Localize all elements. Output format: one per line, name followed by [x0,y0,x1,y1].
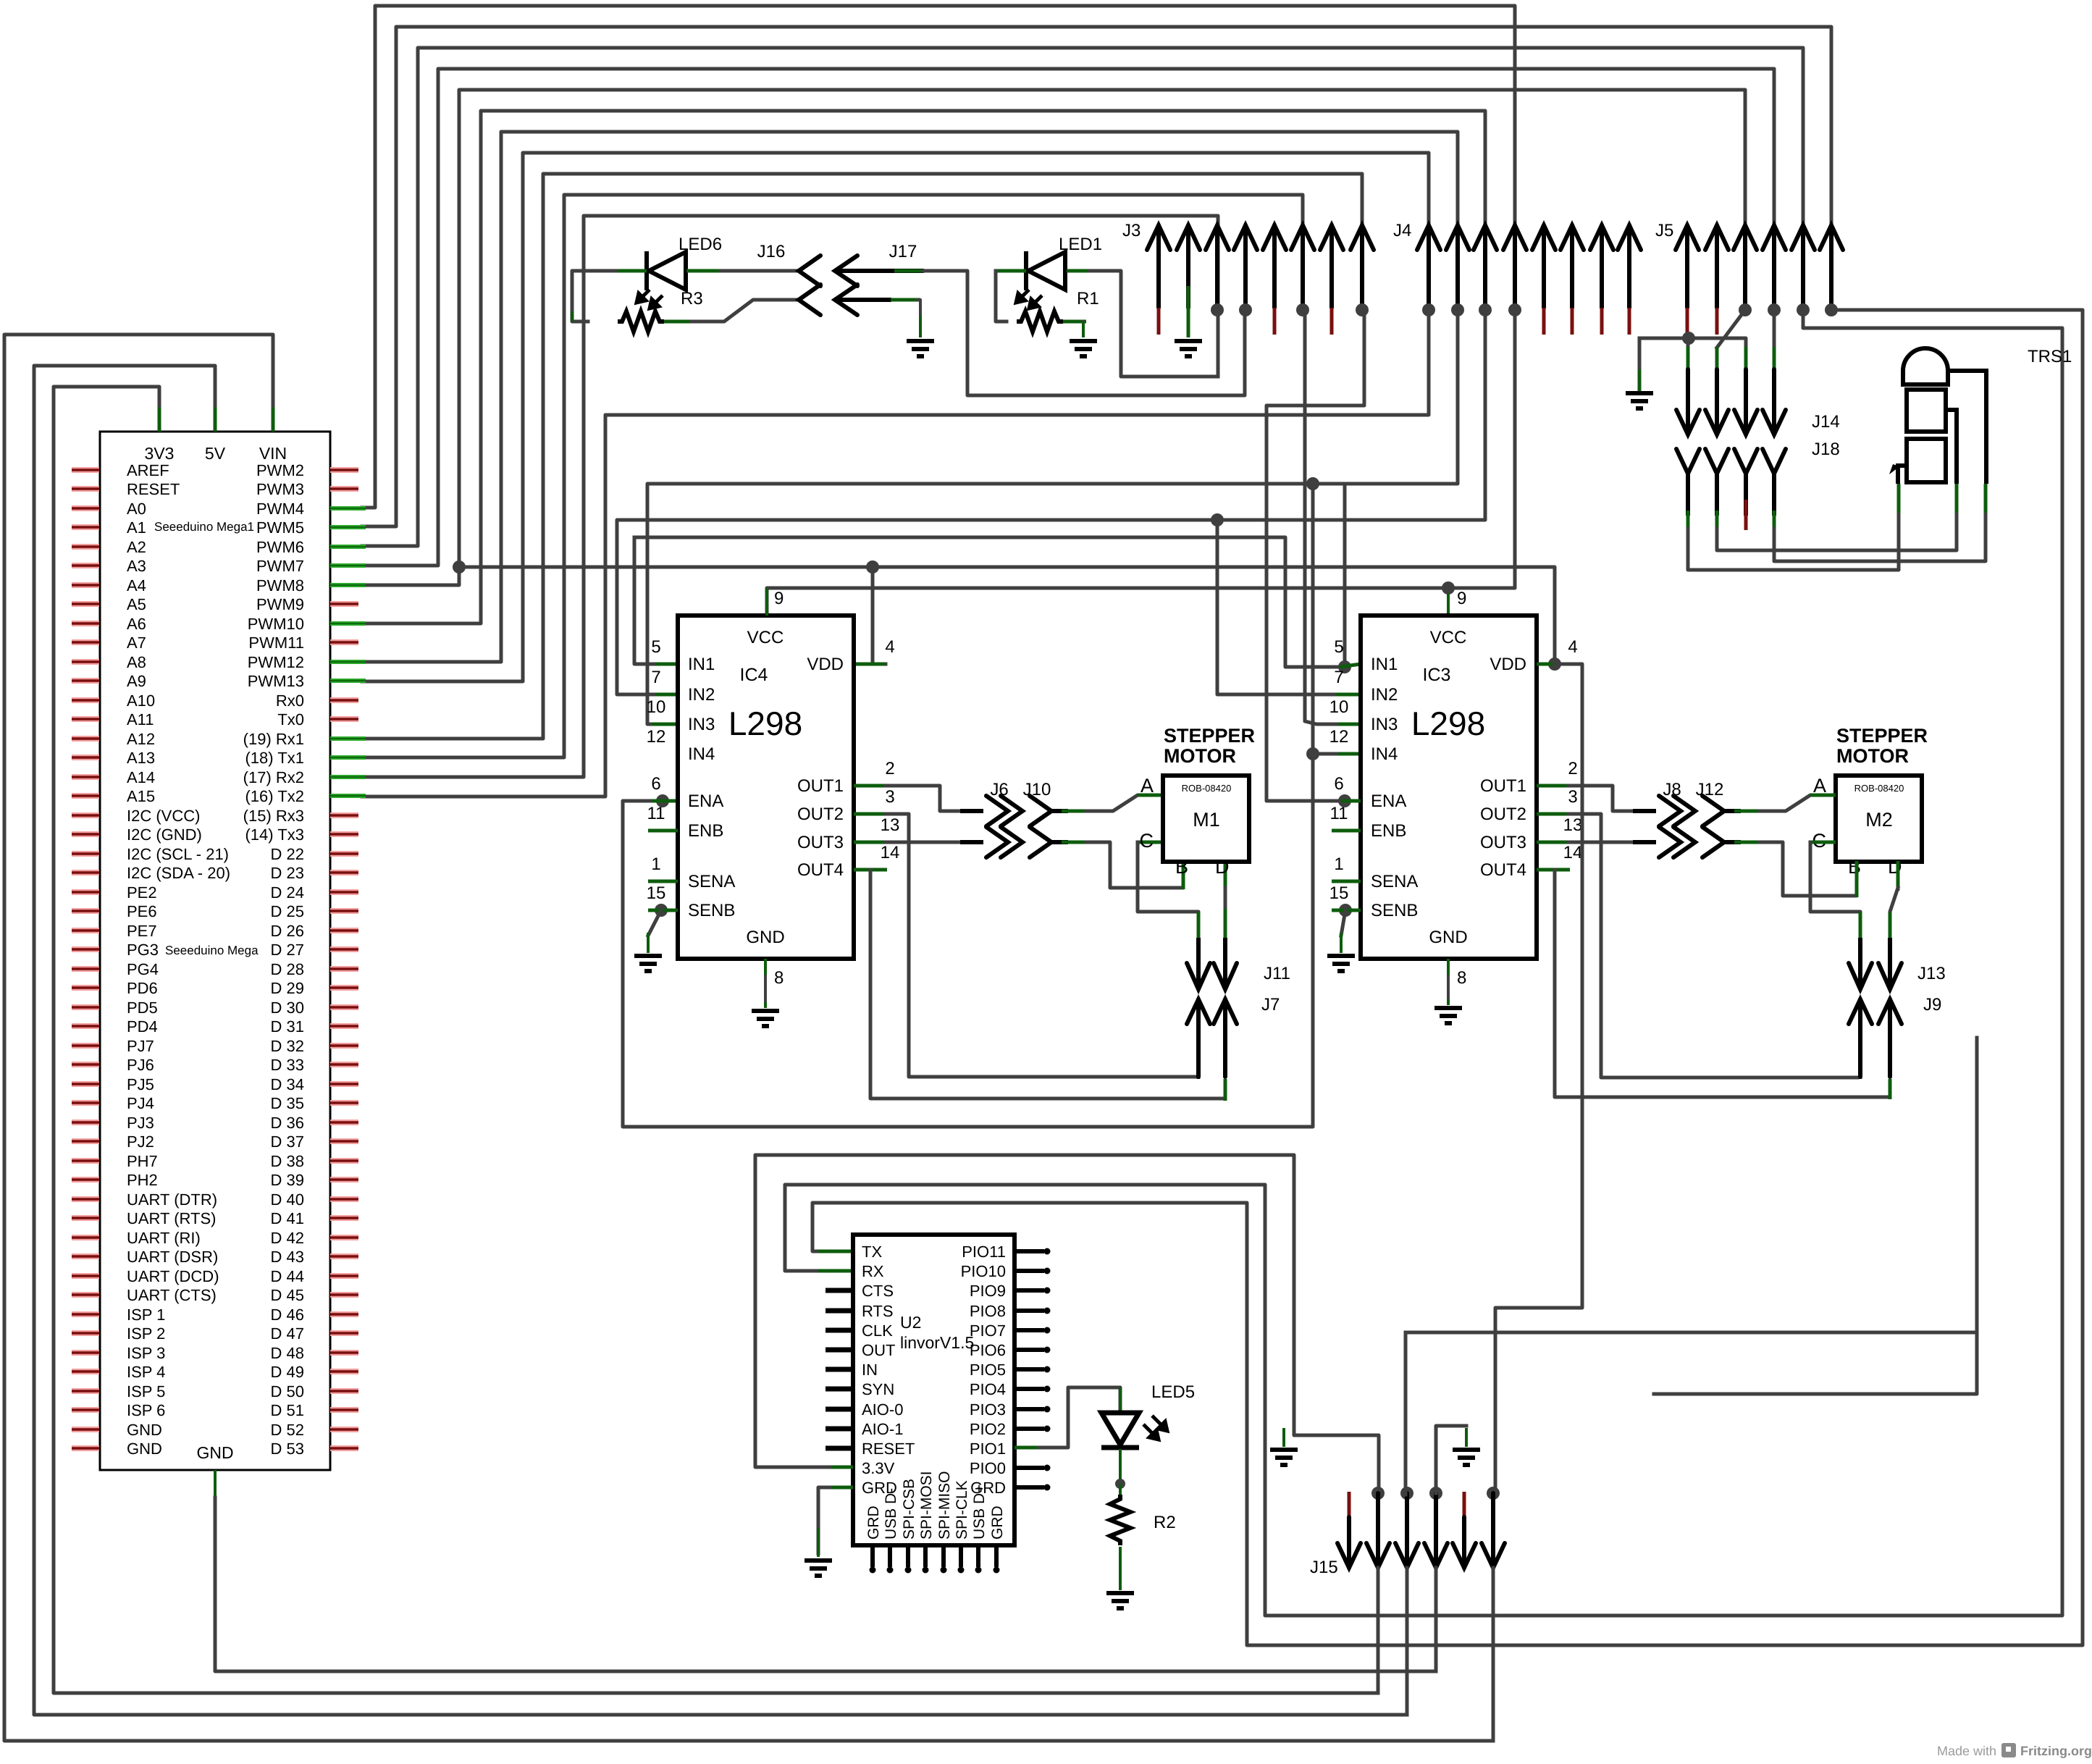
svg-text:J16: J16 [757,242,786,261]
svg-text:SPI-CLK: SPI-CLK [954,1480,970,1540]
connector J8 pin1 [1659,796,1681,826]
Seeeduino left pin row (AREF..GND), all unconnected red stubs [72,467,99,473]
svg-text:A12: A12 [127,730,155,748]
svg-text:GND: GND [196,1443,233,1462]
connector J17 pin1 [835,256,923,286]
connector J8 pin2 [1659,827,1681,857]
wire J3 pin8 to IC3 ENA [1266,311,1364,801]
svg-text:(14) Tx3: (14) Tx3 [245,826,304,844]
svg-text:PD6: PD6 [127,979,158,997]
svg-text:PJ3: PJ3 [127,1114,154,1132]
svg-text:PWM2: PWM2 [256,461,304,479]
connector J17 pin2 [835,285,891,315]
svg-text:8: 8 [774,968,784,988]
svg-text:OUT4: OUT4 [1480,860,1526,880]
svg-text:J7: J7 [1261,995,1280,1015]
wire IC3 OUT3 to M2 B [1537,841,1570,844]
svg-text:J5: J5 [1655,221,1673,240]
ground for IC4 GND [752,1011,779,1026]
connector J4 pin2 [1446,225,1469,308]
svg-text:I2C (SCL - 21): I2C (SCL - 21) [127,845,229,863]
svg-text:J4: J4 [1393,221,1411,240]
svg-text:Tx0: Tx0 [277,710,304,728]
svg-text:PE7: PE7 [127,922,157,940]
svg-text:OUT2: OUT2 [797,805,844,824]
svg-text:D 26: D 26 [271,922,304,940]
wire IC4 OUT1 to M1 A [854,784,887,788]
wire IC3 OUT2 to J9 pin1 [1537,812,1570,816]
ground for U2 GRD [805,1561,832,1576]
svg-text:B: B [1848,856,1861,878]
svg-text:A7: A7 [127,634,146,652]
LED LED5 [1101,1413,1139,1448]
connector J3 pin4 [1234,225,1257,308]
wire J3 pin6 to IC3 IN3 [1305,311,1343,724]
motor M2 stepper [1836,776,1922,862]
svg-text:Seeeduino Mega1: Seeeduino Mega1 [154,520,254,534]
svg-text:A5: A5 [127,595,146,613]
wire U2 RX green [818,1269,853,1273]
svg-text:D 48: D 48 [271,1344,304,1362]
svg-text:R1: R1 [1077,289,1099,308]
svg-text:D 29: D 29 [271,979,304,997]
svg-text:J18: J18 [1812,440,1840,459]
svg-text:PIO10: PIO10 [961,1262,1006,1280]
svg-text:J11: J11 [1264,964,1290,983]
svg-text:11: 11 [647,804,665,823]
svg-text:Seeeduino Mega: Seeeduino Mega [165,944,259,957]
svg-text:PD5: PD5 [127,999,158,1017]
svg-text:OUT4: OUT4 [797,860,844,880]
IC IC4 L298 [678,616,854,959]
connector J9 pin2 [1878,999,1902,1077]
wire PWM7 to J5 pin4 top [362,69,1774,566]
svg-text:D 34: D 34 [271,1075,304,1093]
svg-text:ENA: ENA [688,791,723,811]
wire J4 pin2 to IC4 IN3 [647,311,1458,724]
svg-text:SENB: SENB [688,901,735,920]
connector J16 pin2 [799,285,820,315]
svg-text:PJ7: PJ7 [127,1037,154,1055]
wire Tx2 to J4 pin1 [362,310,1429,797]
svg-text:D 27: D 27 [271,941,304,959]
svg-text:D 41: D 41 [271,1209,304,1227]
connector J14 pin1 [1686,347,1690,374]
svg-text:D 28: D 28 [271,960,304,978]
svg-text:OUT1: OUT1 [1480,776,1526,796]
wire IC3 IN4 branch [1313,484,1343,754]
svg-text:PE6: PE6 [127,902,157,920]
svg-text:STEPPER: STEPPER [1164,725,1255,747]
svg-text:L298: L298 [1411,705,1485,742]
svg-text:CTS: CTS [862,1282,894,1300]
wire ground to J15 pin4 [1465,1428,1468,1447]
svg-text:IN2: IN2 [688,685,715,705]
svg-text:J13: J13 [1917,964,1946,983]
svg-text:PIO9: PIO9 [970,1282,1006,1300]
connector J3 pin3 [1206,225,1229,308]
svg-text:PWM9: PWM9 [256,595,304,613]
connector J4 pin5 [1532,225,1555,308]
svg-text:A14: A14 [127,768,155,786]
svg-text:PG3: PG3 [127,941,159,959]
wire J5 pin6 to U2 TX [812,310,2083,1645]
svg-text:OUT3: OUT3 [1480,833,1526,852]
connector J5 pin3 [1734,225,1757,308]
connector J7 pin2 [1214,999,1237,1077]
svg-text:M1: M1 [1193,809,1220,831]
svg-text:12: 12 [647,727,666,747]
svg-text:D 45: D 45 [271,1286,304,1304]
svg-text:GND: GND [127,1440,162,1458]
wire IC3 VDD junction [1548,658,1561,671]
svg-text:SENB: SENB [1371,901,1418,920]
wire PWM12 to J4 pin2 top [362,132,1458,662]
connector J18 pin1 [1676,449,1700,474]
wire mid border vertical [1654,1038,1977,1394]
LED LED1 [1026,251,1065,290]
svg-text:IN4: IN4 [688,744,715,764]
svg-text:ISP 5: ISP 5 [127,1382,165,1400]
svg-text:UART (CTS): UART (CTS) [127,1286,217,1304]
wire M1 D down [1224,861,1227,891]
svg-text:USB D+: USB D+ [971,1484,988,1540]
svg-text:14: 14 [881,843,900,862]
svg-text:7: 7 [1334,668,1343,687]
wire PWM5 to J5 pin6 top [362,27,1831,526]
wire IC4 IN1 to IC3 IN1 [634,537,681,664]
svg-text:9: 9 [1457,589,1466,608]
svg-text:PWM13: PWM13 [248,672,304,690]
svg-text:IN2: IN2 [1371,685,1398,705]
svg-text:3V3: 3V3 [145,444,175,463]
connector J12 pin2 [1702,827,1724,857]
connector J3 pin2 [1177,225,1200,308]
svg-text:PE2: PE2 [127,883,157,902]
svg-text:PWM10: PWM10 [248,615,304,633]
wire 3V3 to left border loop [158,404,161,432]
svg-text:D 23: D 23 [271,864,304,882]
svg-text:7: 7 [651,668,660,687]
ground for IC3 GND [1434,1008,1462,1023]
wire LED6 anode to J16 pin1 [686,269,724,273]
connector J3 pin8 [1350,225,1374,308]
svg-text:PIO2: PIO2 [970,1420,1006,1438]
svg-text:UART (DSR): UART (DSR) [127,1248,218,1266]
svg-text:AIO-1: AIO-1 [862,1420,903,1438]
wire Tx1 to J3 pin6 top [362,195,1303,757]
module U2 linvorV1.5 box [853,1235,1015,1545]
svg-text:D 39: D 39 [271,1171,304,1189]
connector J15 pin5 [1463,1492,1466,1519]
wire LED6 cathode loop [614,269,647,273]
wire J14 bus to ground [1639,338,1746,348]
svg-text:PJ2: PJ2 [127,1133,154,1151]
connector J18 pin3 unconnected stub [1744,500,1748,530]
connector J15 pin6 [1487,1487,1500,1500]
wire IC3 IN2 branch [1217,520,1343,694]
resistor R1 [1017,311,1063,332]
svg-text:STEPPER: STEPPER [1836,725,1928,747]
motor M1 stepper [1163,776,1249,862]
svg-text:UART (DTR): UART (DTR) [127,1190,217,1209]
svg-text:B: B [1175,856,1188,878]
ground for J3 pin2 [1175,341,1202,356]
svg-text:(17) Rx2: (17) Rx2 [243,768,304,786]
svg-text:MOTOR: MOTOR [1164,745,1236,767]
svg-text:I2C (GND): I2C (GND) [127,826,202,844]
ground for J14 bus [1626,393,1653,408]
svg-text:PWM5: PWM5 [256,518,304,537]
svg-text:OUT: OUT [862,1341,895,1359]
wire LED5 to R2 [1119,1449,1122,1484]
svg-text:D 36: D 36 [271,1114,304,1132]
svg-text:MOTOR: MOTOR [1836,745,1909,767]
ground for R2 [1106,1593,1134,1608]
svg-text:RTS: RTS [862,1302,894,1320]
IC IC3 L298 [1361,616,1537,959]
svg-text:D 43: D 43 [271,1248,304,1266]
wire IC4 ENB stub [648,829,678,833]
ground for J15 pin4 [1453,1450,1480,1465]
svg-text:PIO0: PIO0 [970,1459,1006,1477]
svg-text:ISP 3: ISP 3 [127,1344,165,1362]
svg-text:9: 9 [774,589,784,608]
svg-text:D 22: D 22 [271,845,304,863]
svg-text:RESET: RESET [127,480,180,498]
connector J4 pin7 [1590,225,1613,308]
svg-text:J17: J17 [889,242,917,261]
svg-text:D 24: D 24 [271,883,304,902]
svg-text:D: D [1888,856,1902,878]
ground for IC3 SENB [1327,956,1355,971]
svg-text:R3: R3 [681,289,703,308]
svg-text:13: 13 [1563,815,1583,835]
wire IC3 IN1 riser [1343,484,1347,667]
svg-text:A9: A9 [127,672,146,690]
connector J18 pin3 [1734,449,1757,474]
wire J17 pin1 to J3 pin4 [894,269,927,273]
connector J13 pin1 [1858,938,1862,989]
svg-text:3.3V: 3.3V [862,1459,895,1477]
connector J3 pin7 [1320,225,1343,308]
svg-text:A: A [1140,775,1154,797]
connector J18 pin2 [1705,449,1728,474]
wire M2 D down [1896,861,1900,891]
wire IC3 IN4 to IC4 ENA [623,754,1313,1127]
resistor R3 [618,311,664,332]
wire IC3 OUT4 to J9 pin2 [1537,868,1570,872]
wire to J15 pin3 top [1404,1332,1408,1495]
wire R1 to ground [1063,320,1086,324]
connector J11 pin2 [1223,938,1227,989]
connector J4 pin4 [1503,225,1526,308]
connector J14 pin4 [1773,347,1776,374]
svg-text:PWM12: PWM12 [248,653,304,671]
svg-text:J14: J14 [1812,412,1840,432]
connector J14 pin3 [1744,347,1748,374]
wire M2 C to J13 pin1 [1810,841,1836,844]
connector J7 pin1 [1187,999,1210,1077]
svg-text:ENB: ENB [688,821,723,841]
svg-text:D 37: D 37 [271,1133,304,1151]
svg-text:D 38: D 38 [271,1152,304,1170]
svg-text:PIO1: PIO1 [970,1440,1006,1458]
svg-text:D 52: D 52 [271,1421,304,1439]
wire M1 C to J11 pin1 [1138,841,1163,844]
svg-text:M2: M2 [1865,809,1893,831]
wire IC4 VCC stub [765,588,768,616]
svg-text:J10: J10 [1023,780,1051,799]
svg-text:SPI-MISO: SPI-MISO [936,1471,953,1540]
svg-text:ROB-08420: ROB-08420 [1182,783,1232,794]
svg-text:4: 4 [885,637,894,657]
svg-text:A2: A2 [127,538,146,556]
svg-text:Fritzing.org: Fritzing.org [2020,1744,2092,1758]
svg-text:2: 2 [1568,759,1577,778]
connector J5 pin4 [1763,225,1786,308]
svg-text:D: D [1215,856,1230,878]
svg-text:ISP 1: ISP 1 [127,1306,165,1324]
wire U2 PIO1 to LED5 [1015,1446,1043,1450]
connector J4 pin3 [1474,225,1497,308]
ground (J15 area left) [1270,1450,1298,1465]
svg-text:UART (RI): UART (RI) [127,1229,201,1247]
svg-text:PG4: PG4 [127,960,159,978]
junction IC3 IN1 [1338,660,1351,673]
wire IC3 OUT1 to M2 A [1537,784,1570,788]
wire J5 pin5 to U2 RX [785,310,2062,1616]
connector J5 pin2 [1705,225,1728,308]
U2 bottom pins [870,1545,875,1567]
svg-text:D 32: D 32 [271,1037,304,1055]
wire VIN loop to J15 pin6 [4,335,1493,1741]
svg-text:I2C (VCC): I2C (VCC) [127,807,200,825]
wire VIN to left border loop [272,404,275,432]
wire LED1 anode from J3 pin3 loop [1067,269,1093,273]
junction J14 pin1 [1682,332,1695,345]
svg-text:D 42: D 42 [271,1229,304,1247]
svg-text:15: 15 [1329,883,1349,903]
svg-text:PJ4: PJ4 [127,1094,154,1112]
svg-text:TRS1: TRS1 [2028,347,2072,366]
wire Rx2 to J3 pin3 [362,216,1218,777]
svg-text:IN1: IN1 [1371,655,1398,674]
svg-text:J6: J6 [990,780,1008,799]
junction IC4 ENA [656,794,669,807]
Seeeduino Mega board outline [100,432,330,1470]
svg-text:A8: A8 [127,653,146,671]
svg-text:14: 14 [1563,843,1583,862]
svg-text:OUT2: OUT2 [1480,805,1526,824]
svg-text:LED1: LED1 [1059,235,1102,254]
svg-text:(15) Rx3: (15) Rx3 [243,807,304,825]
svg-text:2: 2 [885,759,894,778]
wire IC3 ENA riser long line [1406,1331,1977,1335]
svg-text:PJ6: PJ6 [127,1056,154,1074]
LED LED6 [647,251,686,290]
svg-text:IN1: IN1 [688,655,715,674]
svg-text:LED5: LED5 [1151,1382,1195,1402]
wire R3 to J16 pin2 [664,320,695,324]
wire IC4 GND pin8 to ground [764,959,767,979]
connector J14 pin2 [1715,347,1719,374]
connector J4 pin8 [1618,225,1641,308]
svg-text:1: 1 [651,854,660,874]
junction IC3 ENA [1338,794,1351,807]
ground for R1 [1070,341,1097,356]
svg-text:PWM3: PWM3 [256,480,304,498]
svg-text:VCC: VCC [1430,628,1467,647]
connector J15 pin3 [1400,1487,1413,1500]
junction VCC IC3 [1442,581,1455,595]
svg-text:D 46: D 46 [271,1306,304,1324]
wire J4 pin4 to VCC of IC4 and IC3 [767,311,1515,615]
svg-text:D 44: D 44 [271,1267,304,1285]
wire PWM4 to J4 pin4 top [362,6,1515,508]
svg-text:GRD: GRD [989,1505,1006,1540]
connector J5 pin1 [1676,225,1699,308]
wire PWM6 to J5 pin5 top [362,48,1803,546]
svg-text:VDD: VDD [1490,655,1526,674]
connector J5 pin5 [1791,225,1815,308]
connector J18 pin4 [1763,449,1786,474]
svg-text:PH7: PH7 [127,1152,158,1170]
ground near J15 left [1282,1428,1285,1447]
wire IC4 SENB to ground [655,904,668,917]
wire Seeeduino GND to J15 pin4 [214,1470,217,1499]
svg-text:CLK: CLK [862,1322,893,1340]
svg-text:J9: J9 [1923,995,1941,1015]
wire J18 pin1 to TRS1 sleeve [1686,511,1690,532]
svg-text:PIO3: PIO3 [970,1400,1006,1419]
wire IC3 SENA stub [1332,880,1361,883]
svg-text:13: 13 [881,815,900,835]
connector J10 pin1 [1030,796,1051,826]
svg-text:A0: A0 [127,500,146,518]
svg-text:8: 8 [1457,968,1466,988]
connector J12 pin1 [1702,796,1724,826]
svg-text:IN4: IN4 [1371,744,1398,764]
svg-text:5V: 5V [205,444,226,463]
svg-text:A13: A13 [127,749,155,767]
svg-text:D 35: D 35 [271,1094,304,1112]
svg-text:ROB-08420: ROB-08420 [1854,783,1904,794]
connector J3 pin6 [1291,225,1314,308]
junction IC3 IN4 [1306,747,1319,760]
svg-text:PIO7: PIO7 [970,1322,1006,1340]
svg-text:OUT1: OUT1 [797,776,844,796]
svg-text:PH2: PH2 [127,1171,158,1189]
svg-text:A1: A1 [127,518,146,537]
wire IC3 ENB stub [1332,829,1361,833]
svg-text:(19) Rx1: (19) Rx1 [243,730,304,748]
wire J3 pin3 loop bottom [1217,310,1220,377]
svg-text:PIO11: PIO11 [962,1243,1006,1261]
wire IC4 OUT3 to M1 B [854,841,887,844]
wire LED1 cathode loop [994,269,1026,273]
svg-text:5: 5 [1334,637,1343,657]
svg-text:PWM8: PWM8 [256,576,304,595]
svg-text:D 33: D 33 [271,1056,304,1074]
wire PWM10 to J4 pin3 top [362,111,1485,623]
wire 5V to left border loop [214,404,217,432]
wire PWM8 to J5 pin3 top [362,90,1745,585]
svg-text:IC4: IC4 [740,665,768,685]
junction at IN2 branch [1211,513,1224,526]
svg-text:VDD: VDD [807,655,844,674]
connector J10 pin2 [1030,827,1051,857]
